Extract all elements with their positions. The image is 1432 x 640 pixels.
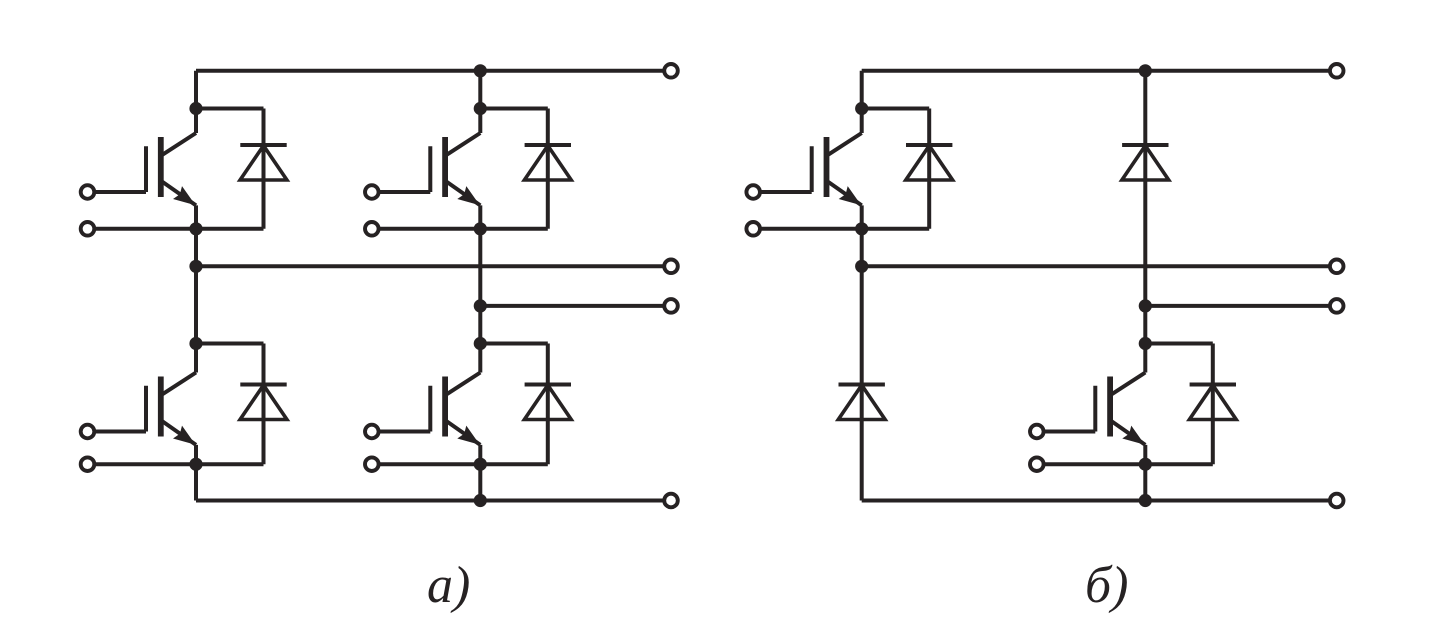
svg-text:б): б) (1085, 557, 1128, 614)
svg-text:a): a) (427, 557, 470, 614)
